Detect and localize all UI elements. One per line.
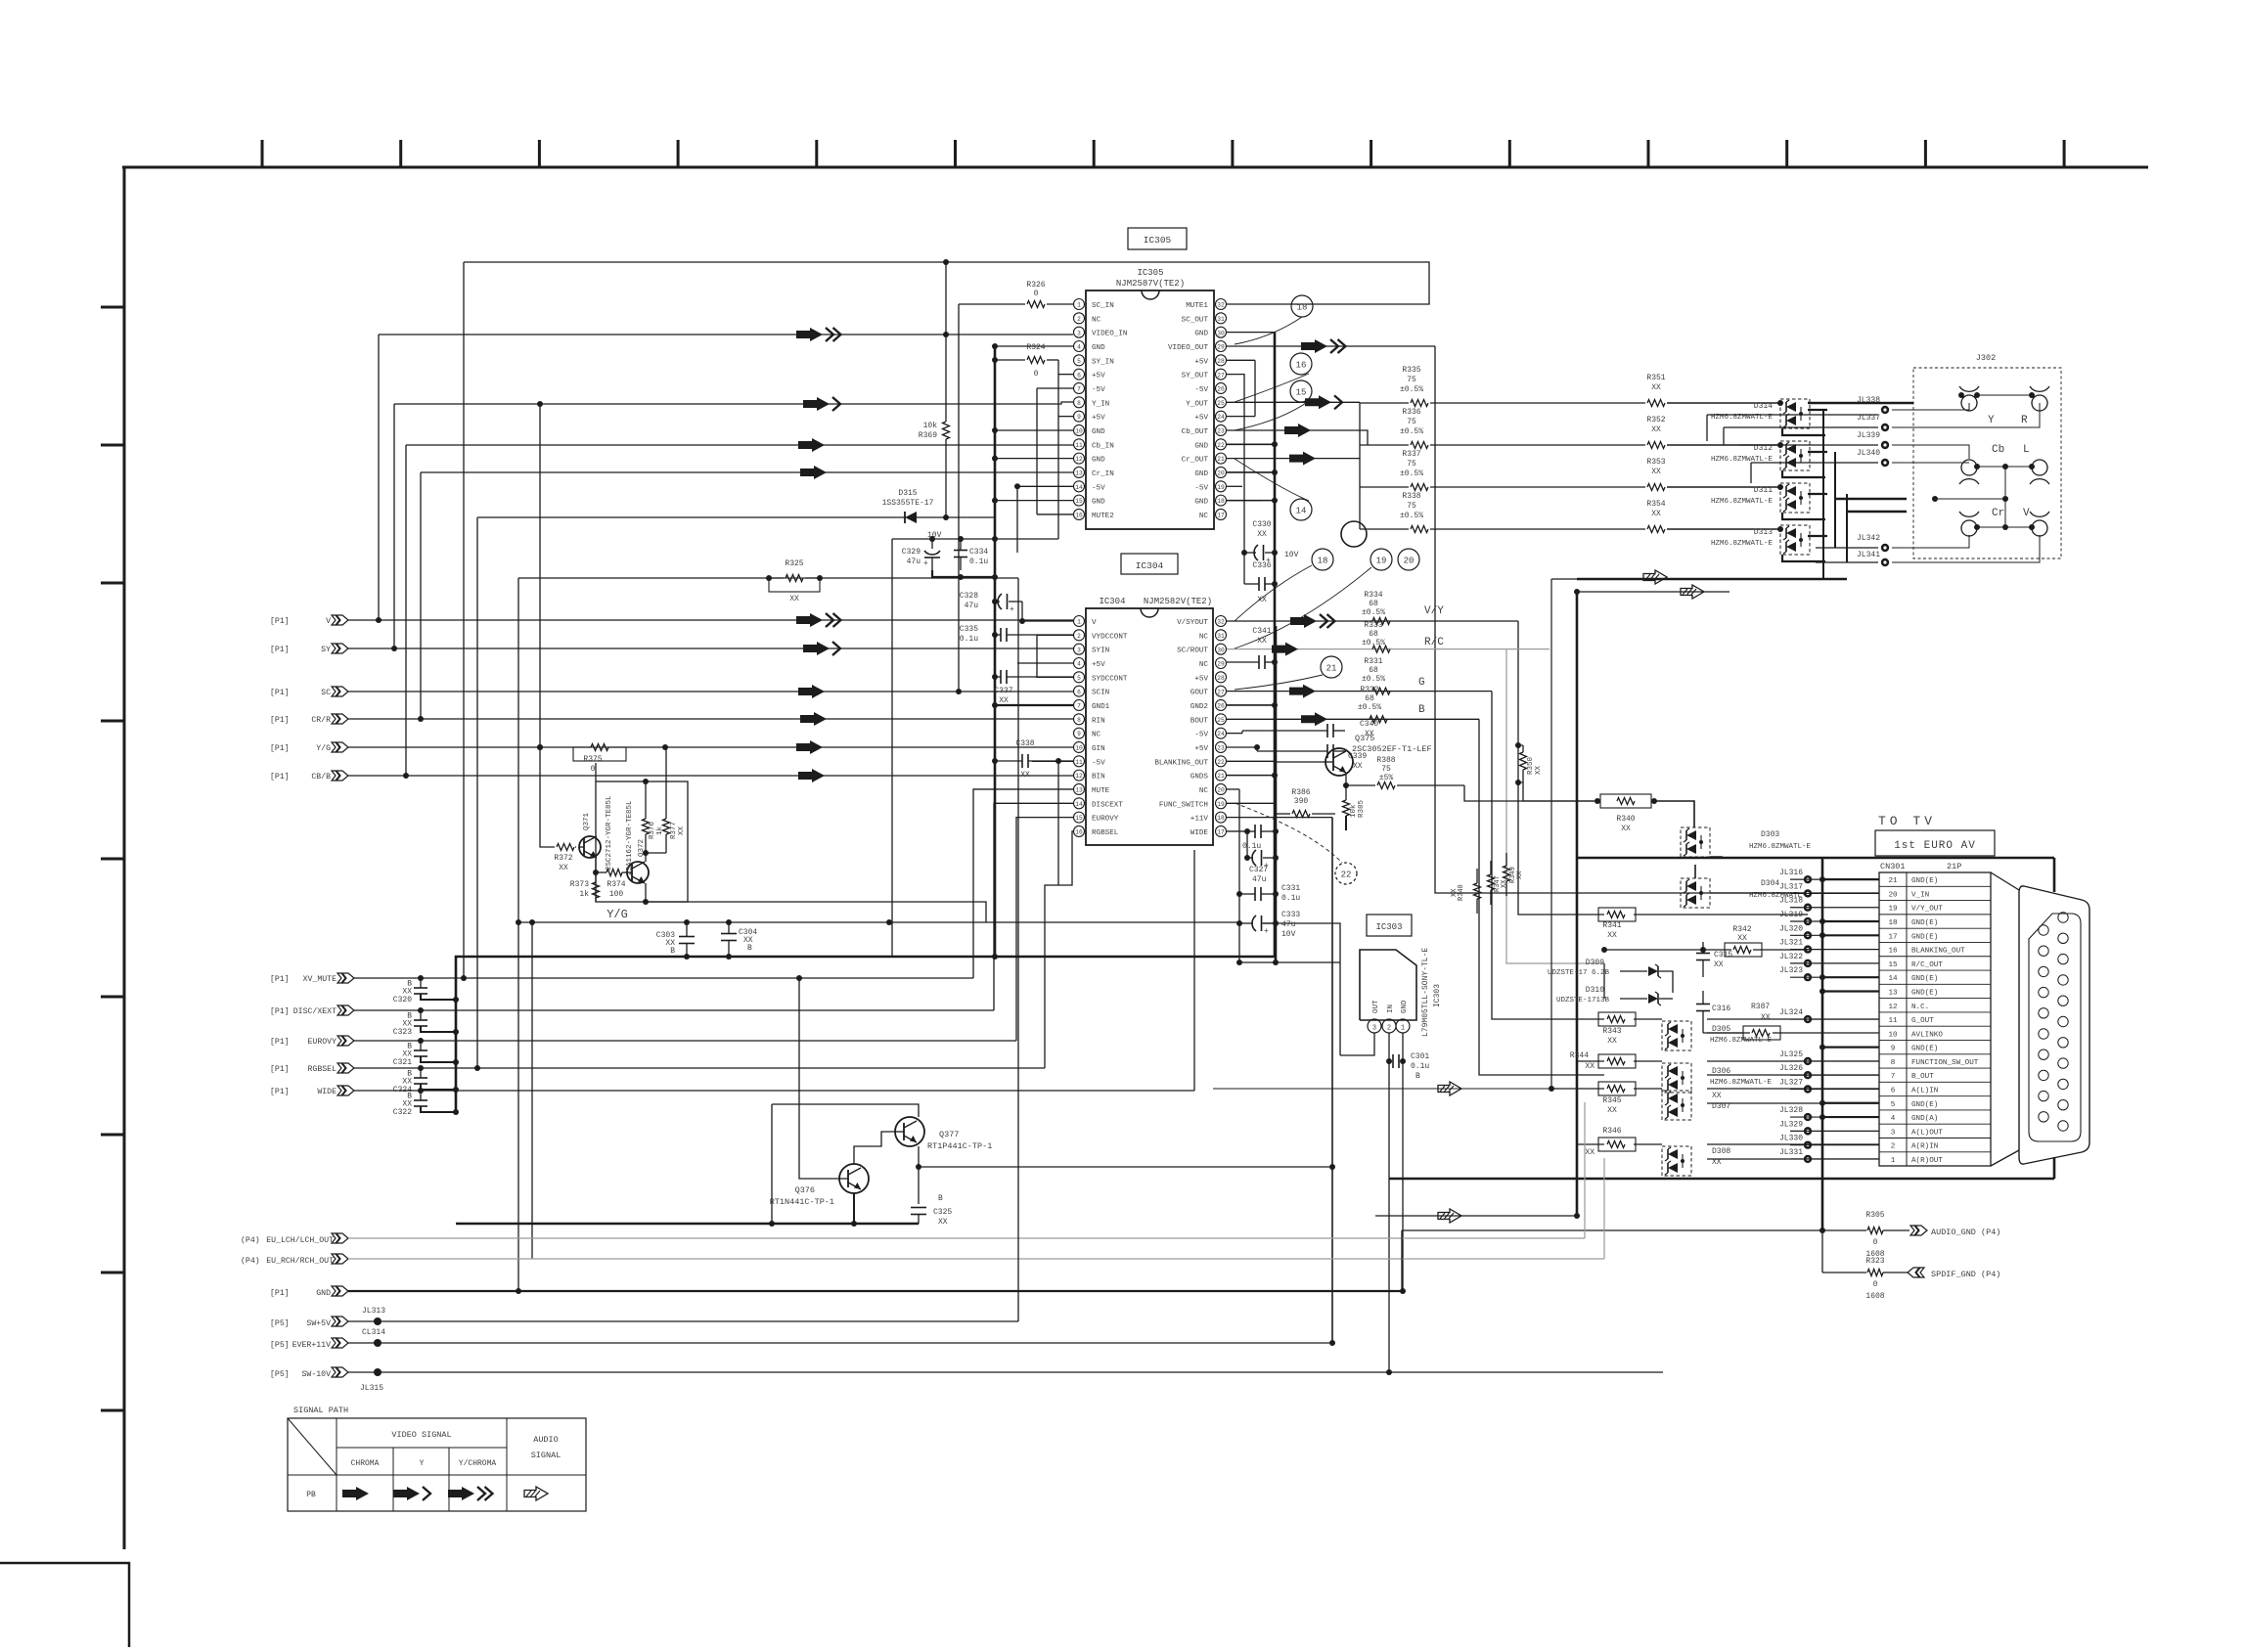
svg-text:Y_IN: Y_IN — [1092, 400, 1109, 408]
svg-text:HZM6.8ZMWATL-E: HZM6.8ZMWATL-E — [1749, 843, 1812, 851]
svg-text:Y_OUT: Y_OUT — [1186, 400, 1208, 408]
svg-text:GND: GND — [1092, 428, 1105, 436]
svg-text:D311: D311 — [1754, 486, 1773, 495]
wire Q376 collector to Q377 base — [854, 1132, 895, 1164]
svg-text:D308: D308 — [1712, 1147, 1730, 1156]
wire DISC/XEXT input — [354, 1009, 994, 1011]
svg-text:15: 15 — [1296, 388, 1307, 398]
svg-text:D315: D315 — [898, 489, 917, 498]
svg-text:75: 75 — [1381, 765, 1391, 774]
svg-text:GNDS: GNDS — [1190, 774, 1209, 781]
svg-text:10: 10 — [1888, 1031, 1898, 1039]
svg-text:12: 12 — [1075, 773, 1083, 780]
svg-text:4: 4 — [1891, 1115, 1896, 1123]
svg-text:SC_OUT: SC_OUT — [1182, 316, 1209, 324]
diode network D303 HZM6.8ZMWATL-E — [1681, 827, 1710, 857]
svg-text:Y: Y — [1988, 415, 1995, 426]
wire long riser x544 — [531, 922, 533, 1259]
wire V/Y down to CN301 pin19 — [1518, 621, 1604, 915]
svg-text:GND2: GND2 — [1190, 703, 1209, 711]
svg-text:CHROMA: CHROMA — [351, 1459, 380, 1468]
svg-text:R333: R333 — [1364, 621, 1382, 630]
svg-text:-5V: -5V — [1092, 386, 1105, 394]
svg-text:GND: GND — [1092, 499, 1105, 507]
audio line with open arrow bottom — [1375, 1215, 1577, 1217]
svg-text:12: 12 — [1075, 456, 1083, 463]
wire IC305 pin6/7/9 power stubs — [1058, 374, 1073, 376]
svg-text:10: 10 — [1075, 745, 1083, 752]
svg-text:C301: C301 — [1411, 1052, 1429, 1061]
resistor R334 68 — [1372, 618, 1390, 625]
wire B down to CN301 B_OUT — [1479, 719, 1604, 1075]
wire IC305 pin10 GND stub — [995, 429, 1073, 431]
resistor R372 — [557, 844, 574, 851]
thick bus to J302 Cb/Cr link — [1835, 498, 1907, 501]
svg-text:11: 11 — [1888, 1017, 1898, 1025]
svg-text:EUROVY: EUROVY — [308, 1038, 337, 1047]
svg-text:IC305: IC305 — [1144, 235, 1172, 246]
capacitor C315 XX — [1696, 953, 1710, 955]
diode network D313 HZM6.8ZMWATL-E — [1780, 525, 1810, 555]
wire CN301 pin 9 ground stub — [1822, 1047, 1879, 1049]
svg-text:SW-10V: SW-10V — [302, 1370, 332, 1379]
capacitor C321 — [414, 1049, 427, 1051]
IC304 pin 12 BIN — [1074, 770, 1085, 781]
wire -5V rail below IC304 — [1057, 761, 1059, 885]
svg-text:1st EURO AV: 1st EURO AV — [1894, 840, 1976, 852]
capacitor C332 0.1u — [1254, 825, 1256, 838]
wire IC304 pin14 DISCEXT run — [994, 803, 1073, 1010]
IC305 pin 3 VIDEO_IN — [1074, 327, 1085, 337]
wire IC305 pin14 -5V stub — [1017, 485, 1073, 487]
svg-text:A(L)OUT: A(L)OUT — [1911, 1129, 1943, 1137]
svg-text:[P1]: [P1] — [270, 772, 290, 781]
wire Y_IN row — [394, 402, 1073, 404]
svg-text:14: 14 — [1888, 975, 1898, 983]
svg-text:VIDEO_IN: VIDEO_IN — [1092, 331, 1127, 338]
svg-text:14: 14 — [1075, 801, 1083, 808]
wire IC305 pin4 GND stub — [995, 345, 1073, 347]
wire IC305 pin22 GND stub right — [1227, 443, 1275, 445]
svg-text:8: 8 — [1891, 1059, 1896, 1067]
wire riser CR/R to Cr_IN — [420, 472, 422, 719]
svg-text:C337: C337 — [994, 687, 1012, 695]
IC305 pin 20 GND — [1216, 467, 1227, 477]
svg-text:NC: NC — [1199, 661, 1209, 669]
wire JL323 to CN301 pin 14 — [1790, 976, 1879, 978]
svg-text:+5V: +5V — [1092, 415, 1105, 423]
svg-text:Cr_OUT: Cr_OUT — [1182, 457, 1209, 465]
svg-text:2SA1162-YGR-TE85L: 2SA1162-YGR-TE85L — [626, 800, 634, 875]
wire CN301 pin 17 ground stub — [1822, 934, 1879, 936]
svg-text:V/SYOUT: V/SYOUT — [1177, 619, 1208, 627]
wire riser SC to SC_IN bus — [958, 304, 960, 692]
svg-text:SPDIF_GND (P4): SPDIF_GND (P4) — [1931, 1270, 2000, 1279]
svg-text:MUTE: MUTE — [1092, 787, 1110, 795]
diode D315 1SS355TE-17 — [477, 516, 905, 518]
wire R down link — [1892, 403, 2040, 427]
wire riser SY — [393, 404, 395, 648]
wire BOUT pin25 — [1227, 718, 1479, 720]
svg-text:25: 25 — [1217, 400, 1225, 407]
svg-text:R376: R376 — [649, 821, 656, 839]
svg-text:GND(E): GND(E) — [1911, 919, 1938, 927]
svg-text:JL316: JL316 — [1779, 869, 1803, 877]
svg-text:-5V: -5V — [1092, 484, 1105, 492]
svg-text:SY_OUT: SY_OUT — [1182, 373, 1209, 380]
svg-text:G_OUT: G_OUT — [1911, 1017, 1934, 1025]
svg-text:1608: 1608 — [1865, 1292, 1884, 1301]
resistor R333 68 — [1372, 646, 1390, 652]
wire IC305 pin12 GND stub — [995, 458, 1073, 460]
svg-text:NC: NC — [1199, 513, 1209, 520]
svg-text:A(R)IN: A(R)IN — [1911, 1143, 1938, 1151]
port SPDIF_GND (P4) — [1908, 1268, 1919, 1277]
svg-text:Cb_IN: Cb_IN — [1092, 442, 1114, 450]
transistor Q377 RT1P441C-TP-1 — [895, 1117, 924, 1146]
balloon 18 — [1291, 295, 1313, 317]
svg-text:1: 1 — [1401, 1025, 1405, 1033]
svg-text:+5V: +5V — [1194, 415, 1208, 423]
svg-text:+11V: +11V — [1190, 816, 1209, 824]
capacitor C325 XX — [918, 1167, 920, 1204]
wire right from Q377 — [919, 1166, 1332, 1168]
resistor R351 XX — [1647, 400, 1665, 407]
audio open arrow top right 1 — [1551, 578, 1692, 580]
svg-text:32: 32 — [1217, 302, 1225, 309]
wire Y/G stage output — [646, 902, 986, 922]
svg-text:XX: XX — [1621, 825, 1631, 833]
jack L — [2032, 460, 2047, 475]
svg-text:CB/B: CB/B — [311, 772, 331, 781]
svg-text:HZM6.8ZMWATL-E: HZM6.8ZMWATL-E — [1710, 1037, 1773, 1045]
wire riser x967 — [945, 262, 947, 422]
svg-text:[P5]: [P5] — [270, 1318, 290, 1328]
IC304 pin 23 +5V — [1216, 741, 1227, 752]
svg-text:BLANKING_OUT: BLANKING_OUT — [1154, 759, 1208, 767]
svg-text:CL314: CL314 — [362, 1328, 385, 1337]
label 1st EURO AV box — [1875, 830, 1995, 856]
svg-text:L79M05TLL-SONY-TL-E: L79M05TLL-SONY-TL-E — [1421, 948, 1430, 1037]
signal arrows on input rows — [796, 613, 823, 627]
jumper JL339 — [1881, 441, 1889, 449]
IC304 pin 30 SC/ROUT — [1216, 644, 1227, 654]
wire output elbow rail — [1359, 403, 1361, 529]
IC305 pin 10 GND — [1074, 424, 1085, 435]
wire Cb_IN row — [406, 444, 1073, 446]
resistor R332 68 — [1370, 716, 1387, 723]
svg-text:18: 18 — [1888, 919, 1898, 927]
svg-text:30: 30 — [1217, 647, 1225, 653]
IC305 pin 2 NC — [1074, 313, 1085, 324]
svg-text:GND: GND — [316, 1289, 331, 1298]
jumper JL323 — [1804, 973, 1812, 981]
wire IC303 pin3 to left rail — [1340, 1033, 1374, 1055]
svg-text:D314: D314 — [1754, 402, 1773, 411]
IC304 pin 28 +5V — [1216, 672, 1227, 683]
wire L-V vertical link — [2004, 467, 2006, 527]
resistor R331 68 — [1372, 688, 1390, 694]
wire EUROVY input — [354, 1040, 1016, 1042]
IC303 pin 3 OUT — [1368, 1019, 1381, 1033]
svg-text:SCIN: SCIN — [1092, 690, 1109, 697]
IC304 pin 7 GND1 — [1074, 699, 1085, 710]
IC304 pin 31 NC — [1216, 630, 1227, 641]
IC305 pin 17 NC — [1216, 509, 1227, 519]
wire IC305 pin16 MUTE2 stub — [1037, 513, 1073, 515]
svg-text:NC: NC — [1092, 316, 1101, 324]
svg-text:Y/G: Y/G — [316, 743, 331, 753]
svg-text:R325: R325 — [785, 559, 803, 568]
resistor R347 XX vertical — [1488, 874, 1495, 890]
svg-text:R385: R385 — [1358, 799, 1366, 818]
wire CN301 pin 21 ground stub — [1822, 878, 1879, 880]
svg-text:AVLINKO: AVLINKO — [1911, 1031, 1943, 1039]
wire D309/D310 common — [1603, 963, 1605, 999]
wire JL328 to CN301 pin 4 — [1790, 1116, 1879, 1118]
svg-text:±0.5%: ±0.5% — [1400, 427, 1423, 436]
wire Cb-L link — [1977, 466, 2032, 468]
svg-text:JL325: JL325 — [1779, 1050, 1803, 1059]
wire thick stub bottom of SCART — [2053, 1157, 2056, 1179]
svg-text:XX: XX — [678, 826, 686, 835]
svg-text:14: 14 — [1296, 507, 1307, 516]
IC304 pin 9 NC — [1074, 728, 1085, 738]
GND bus IC304 left pins — [995, 704, 1073, 706]
IC304 pin 10 GIN — [1074, 741, 1085, 752]
svg-text:R348: R348 — [1458, 884, 1465, 901]
resistor R326 — [959, 303, 1025, 305]
svg-text:V_IN: V_IN — [1911, 891, 1929, 899]
wire IC305 pin15 GND stub — [995, 500, 1073, 502]
svg-text:C331: C331 — [1281, 884, 1300, 893]
svg-text:C325: C325 — [933, 1208, 952, 1217]
wire JL322 to CN301 pin 15 — [1790, 962, 1879, 964]
svg-text:XX: XX — [1607, 1106, 1617, 1115]
svg-text:75: 75 — [1407, 460, 1416, 469]
wire JL316 to CN301 pin 21 — [1790, 878, 1879, 880]
wire GOUT pin27 — [1227, 691, 1492, 692]
wire RGBSEL input — [354, 1067, 1045, 1069]
svg-text:VIDEO SIGNAL: VIDEO SIGNAL — [391, 1430, 451, 1440]
IC304 pin 25 BOUT — [1216, 714, 1227, 725]
diode network D311 HZM6.8ZMWATL-E — [1780, 483, 1810, 513]
transistor Q376 RT1N441C-TP-1 — [839, 1164, 869, 1193]
svg-text:±0.5%: ±0.5% — [1400, 385, 1423, 394]
svg-text:RT1P441C-TP-1: RT1P441C-TP-1 — [927, 1141, 992, 1151]
wire Cb_OUT pin23 — [1227, 430, 1368, 445]
wire Q372 collector — [645, 853, 647, 862]
wire CN301 pin 13 ground stub — [1822, 990, 1879, 992]
svg-text:+5V: +5V — [1194, 675, 1208, 683]
svg-text:25: 25 — [1217, 717, 1225, 724]
resistor R375 — [591, 744, 608, 751]
jack Cr — [1961, 520, 1977, 536]
resistor R324 — [995, 359, 1025, 361]
svg-text:[P1]: [P1] — [270, 645, 290, 654]
svg-text:JL342: JL342 — [1857, 534, 1880, 543]
svg-text:R323: R323 — [1865, 1257, 1884, 1266]
svg-text:10: 10 — [1075, 428, 1083, 435]
svg-text:C340: C340 — [1360, 720, 1378, 729]
svg-text:R334: R334 — [1364, 591, 1382, 600]
border tick marks left — [101, 306, 124, 309]
resistor R325 XX with box — [518, 577, 769, 579]
svg-text:EUROVY: EUROVY — [1092, 816, 1119, 824]
svg-text:JL329: JL329 — [1779, 1120, 1803, 1129]
wire V down link — [1892, 535, 2040, 562]
svg-text:JL322: JL322 — [1779, 953, 1803, 961]
wire JL318 to CN301 pin 19 — [1790, 907, 1879, 909]
legend arrow y — [393, 1487, 420, 1500]
svg-text:18: 18 — [1297, 303, 1308, 313]
svg-text:(P4): (P4) — [241, 1256, 260, 1266]
wire JL327 to CN301 pin 6 — [1790, 1088, 1879, 1090]
svg-text:SW+5V: SW+5V — [306, 1319, 331, 1328]
svg-text:20: 20 — [1217, 470, 1225, 477]
wire EVER+11V — [348, 1342, 1332, 1344]
jack Y — [1961, 395, 1977, 411]
svg-text:IC305: IC305 — [1137, 268, 1163, 278]
svg-text:2: 2 — [1077, 633, 1081, 640]
wire SC input — [348, 691, 1073, 692]
wire Cr_IN row — [421, 471, 1073, 473]
svg-text:JL328: JL328 — [1779, 1106, 1803, 1115]
svg-text:27: 27 — [1217, 372, 1225, 379]
svg-text:R335: R335 — [1402, 366, 1420, 375]
svg-text:+5V: +5V — [1194, 745, 1208, 753]
svg-text:VYDCCONT: VYDCCONT — [1092, 633, 1128, 641]
svg-text:JL326: JL326 — [1779, 1064, 1803, 1073]
svg-text:18: 18 — [1318, 557, 1328, 566]
svg-text:XX: XX — [1257, 530, 1267, 539]
IC305 pin 15 GND — [1074, 495, 1085, 506]
svg-text:21: 21 — [1217, 773, 1225, 780]
svg-text:C323: C323 — [393, 1028, 412, 1037]
wire SW+5V — [348, 1320, 1018, 1322]
jumper JL318 — [1804, 904, 1812, 912]
svg-text:R377: R377 — [670, 822, 678, 839]
svg-text:JL330: JL330 — [1779, 1135, 1803, 1143]
svg-text:D303: D303 — [1761, 830, 1779, 839]
wire JL320 to CN301 pin 17 — [1790, 934, 1879, 936]
resistor R350 XX vertical — [1520, 752, 1527, 770]
jumper JL337 — [1881, 424, 1889, 431]
IC IC304 body — [1086, 608, 1213, 845]
svg-text:GND: GND — [1401, 1000, 1409, 1013]
capacitor C324 — [414, 1077, 427, 1079]
svg-text:-5V: -5V — [1092, 759, 1105, 767]
IC305 pin 29 VIDEO_OUT — [1216, 340, 1227, 351]
thick rail x1304 — [1275, 626, 1278, 962]
svg-text:±5%: ±5% — [1379, 774, 1394, 782]
svg-text:[P1]: [P1] — [270, 1288, 290, 1298]
resistor R354 XX — [1647, 526, 1665, 533]
capacitor C333 47u 10V — [1252, 915, 1256, 931]
wire EU_RCH gray — [348, 1258, 1604, 1260]
wire SY input — [348, 647, 1073, 649]
svg-text:47u: 47u — [907, 558, 921, 566]
svg-text:R372: R372 — [554, 854, 572, 863]
IC IC305 body — [1086, 290, 1214, 529]
diode network D307 — [1662, 1091, 1691, 1120]
svg-text:6: 6 — [1077, 372, 1081, 379]
wire FUNC_SWITCH to balloon 22 — [1235, 803, 1342, 863]
svg-text:PB: PB — [306, 1491, 316, 1499]
IC305 pin 19 -5V — [1216, 481, 1227, 492]
IC304 pin 14 DISCEXT — [1074, 798, 1085, 809]
svg-text:22: 22 — [1217, 442, 1225, 449]
svg-text:JL320: JL320 — [1779, 924, 1803, 933]
svg-text:1k: 1k — [579, 890, 589, 899]
svg-text:+: + — [1010, 605, 1014, 614]
wire CB/B input — [348, 775, 1073, 777]
svg-text:B: B — [747, 944, 752, 953]
svg-text:JL340: JL340 — [1857, 449, 1880, 458]
wire VIDEO_OUT down to V_IN CN301 — [1435, 346, 1879, 893]
svg-text:OUT: OUT — [1372, 1000, 1380, 1013]
legend diagonal — [288, 1418, 337, 1475]
wire SC/ROUT pin30 gray R/C — [1227, 648, 1550, 650]
wire Cr-V link — [1977, 526, 2032, 528]
svg-text:XX: XX — [1712, 1092, 1722, 1100]
wire WIDE input — [354, 1090, 1194, 1092]
svg-text:C316: C316 — [1712, 1005, 1730, 1013]
wire IC304 pin2 stub — [1037, 634, 1073, 636]
svg-text:XX: XX — [1535, 765, 1543, 775]
wire D314 hooks to bus — [1808, 409, 1827, 411]
legend arrow audio — [524, 1487, 548, 1500]
svg-text:17: 17 — [1217, 829, 1225, 836]
svg-text:10k: 10k — [923, 422, 938, 430]
wire IC305 pin18 GND stub right — [1227, 500, 1275, 502]
svg-text:16: 16 — [1888, 948, 1898, 956]
wire R352 to diode network — [1667, 444, 1780, 446]
svg-text:R341: R341 — [1602, 921, 1621, 930]
wire BLANKING_OUT pin22 — [1227, 760, 1275, 762]
svg-text:R305: R305 — [1865, 1211, 1884, 1220]
svg-text:NC: NC — [1199, 633, 1209, 641]
IC304 pin 15 EUROVY — [1074, 812, 1085, 823]
svg-text:NC: NC — [1092, 732, 1101, 739]
balloon 22 dashed — [1335, 863, 1357, 884]
svg-text:9: 9 — [1077, 731, 1081, 737]
svg-text:0.1u: 0.1u — [1411, 1062, 1429, 1071]
jumper JL327 — [1804, 1085, 1812, 1093]
svg-text:XX: XX — [999, 696, 1009, 705]
svg-text:22: 22 — [1341, 871, 1352, 880]
svg-text:18: 18 — [1217, 815, 1225, 822]
svg-text:R375: R375 — [583, 755, 602, 764]
svg-text:R337: R337 — [1402, 450, 1420, 459]
svg-text:10V: 10V — [1284, 551, 1299, 559]
balloon 21 — [1321, 656, 1342, 678]
IC304 pin 1 V — [1074, 616, 1085, 627]
svg-text:8: 8 — [1077, 400, 1081, 407]
wire thick to-tv horizontal — [1577, 857, 2054, 860]
svg-text:0: 0 — [1873, 1280, 1878, 1289]
svg-text:V/Y: V/Y — [1424, 605, 1444, 617]
balloon 16 — [1290, 353, 1312, 375]
svg-text:15: 15 — [1888, 961, 1898, 969]
wire EU_LCH gray — [348, 1237, 1585, 1239]
resistor R340 XX box — [1617, 798, 1635, 805]
wire IC304 pin13 MUTE run — [973, 789, 1073, 978]
svg-text:XX: XX — [789, 595, 799, 603]
resistor R323 0 1608 — [1867, 1270, 1883, 1276]
wire row R337 to R353 — [1430, 486, 1645, 488]
IC305 pin 32 MUTE1 — [1216, 299, 1227, 310]
